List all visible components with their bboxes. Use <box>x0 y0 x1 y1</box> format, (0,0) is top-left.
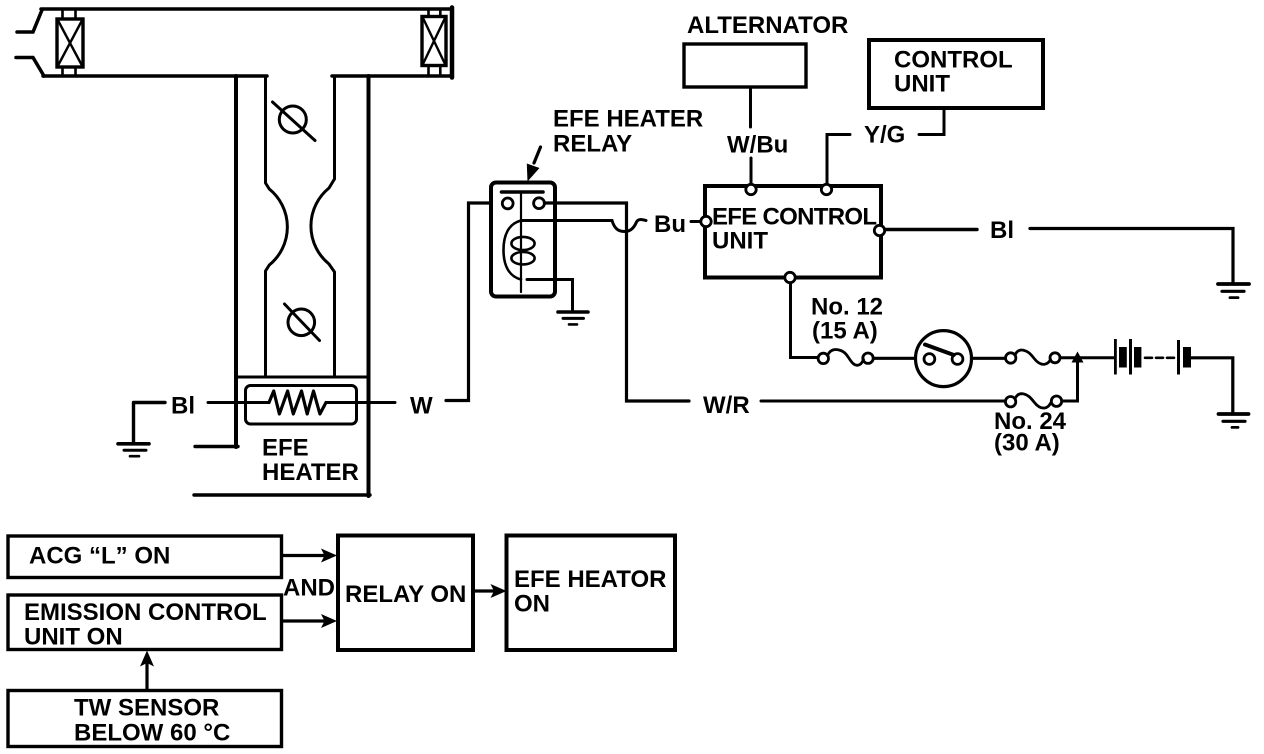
EFE heater box <box>246 386 357 425</box>
svg-text:RELAY ON: RELAY ON <box>345 581 466 608</box>
throttle valve upper <box>273 102 316 141</box>
svg-text:UNIT ON: UNIT ON <box>24 624 123 651</box>
check valve left <box>57 9 83 76</box>
terminal right (Bl) <box>874 225 884 235</box>
arrow TW SENSOR up to EMISSION box <box>145 662 148 690</box>
svg-text:TW SENSOR: TW SENSOR <box>74 695 219 722</box>
svg-text:EMISSION CONTROL: EMISSION CONTROL <box>24 599 267 626</box>
wire relay contact to W/R corner <box>545 203 690 401</box>
flowchart box ACG L ON <box>8 536 282 578</box>
control unit box <box>869 40 1043 108</box>
wire W up to relay <box>446 203 502 401</box>
flowchart box EMISSION CONTROL UNIT ON <box>8 595 282 650</box>
svg-text:(15 A): (15 A) <box>812 318 878 345</box>
ground left <box>118 444 149 456</box>
check valve right <box>422 9 446 76</box>
svg-text:W: W <box>410 393 433 420</box>
resistor EFE heater element <box>269 391 326 414</box>
flowchart box RELAY ON <box>338 536 473 651</box>
svg-text:ON: ON <box>514 591 550 618</box>
ignition switch <box>916 331 972 387</box>
svg-text:(30 A): (30 A) <box>994 430 1060 457</box>
wire stub left of Bu terminal <box>694 220 699 223</box>
svg-text:CONTROL: CONTROL <box>894 47 1013 74</box>
svg-text:AND: AND <box>283 575 335 602</box>
air duct <box>16 8 452 78</box>
wire W/R to fuse No.24 <box>761 400 1005 403</box>
svg-text:EFE HEATOR: EFE HEATOR <box>514 566 666 593</box>
flowchart box EFE HEATOR ON <box>507 536 676 651</box>
svg-text:UNIT: UNIT <box>894 71 950 98</box>
arrow ACG to RELAY ON <box>282 554 324 557</box>
svg-text:No. 12: No. 12 <box>811 294 883 321</box>
terminal bottom (No.12) <box>785 272 795 282</box>
EFE heater compartment top line <box>237 376 367 379</box>
terminal top left (W/Bu) <box>746 184 756 194</box>
wire relay coil to ground <box>527 280 573 312</box>
terminal left (Bu) <box>701 216 711 226</box>
svg-text:W/Bu: W/Bu <box>727 132 788 159</box>
svg-text:UNIT: UNIT <box>712 228 768 255</box>
wire control unit to fuse No.12 <box>791 283 818 358</box>
junction arrow <box>1072 352 1084 363</box>
alternator box <box>684 44 806 87</box>
svg-text:RELAY: RELAY <box>553 131 632 158</box>
wire Bu with hop <box>521 220 646 232</box>
venturi inner wall left <box>266 76 288 377</box>
svg-text:EFE: EFE <box>262 435 309 462</box>
fuse No.24 <box>1005 394 1061 408</box>
svg-text:EFE HEATER: EFE HEATER <box>553 106 703 133</box>
ground right upper <box>1218 284 1249 298</box>
wire battery to right ground <box>1191 358 1233 412</box>
flowchart box TW SENSOR BELOW 60 C <box>8 691 282 747</box>
ground right lower <box>1219 414 1249 427</box>
wire Y/G <box>919 108 944 135</box>
wire junction down to fuse No.24 <box>1062 358 1078 401</box>
wire fuse to switch <box>874 357 916 360</box>
wire W/Bu <box>749 87 752 127</box>
wire switch to fusible link <box>972 357 1006 360</box>
EFE control unit box <box>705 186 881 278</box>
svg-text:EFE CONTROL: EFE CONTROL <box>712 204 876 231</box>
wire Bl right <box>885 228 977 231</box>
svg-text:ACG “L” ON: ACG “L” ON <box>29 543 170 570</box>
svg-text:HEATER: HEATER <box>262 459 359 486</box>
arrow RELAY ON to EFE HEATOR <box>473 589 494 592</box>
svg-text:Bl: Bl <box>990 217 1014 244</box>
arrow EMISSION to RELAY ON <box>282 619 324 622</box>
wire fusible link to battery <box>1060 356 1114 359</box>
wire stub Bu to terminal <box>691 220 700 223</box>
wire Bl to heater <box>208 401 269 404</box>
wire heater to W <box>326 401 395 404</box>
carburetor body outer walls <box>194 76 370 496</box>
terminal top right (Y/G) <box>821 184 831 194</box>
wire Bl to right ground <box>1030 229 1233 283</box>
svg-text:Bl: Bl <box>171 393 195 420</box>
battery <box>1114 339 1191 375</box>
svg-text:ALTERNATOR: ALTERNATOR <box>687 12 848 39</box>
svg-text:W/R: W/R <box>703 392 750 419</box>
fuse fusible link <box>1006 350 1061 364</box>
svg-text:BELOW 60 °C: BELOW 60 °C <box>74 720 230 747</box>
relay EFE heater relay <box>491 183 555 297</box>
fuse No.12 <box>818 349 873 365</box>
venturi inner wall right <box>311 76 335 377</box>
ground relay <box>558 312 588 324</box>
svg-text:Y/G: Y/G <box>864 122 905 149</box>
svg-text:Bu: Bu <box>654 211 686 238</box>
wire to left ground <box>134 403 166 444</box>
throttle valve lower <box>285 304 320 341</box>
arrow relay pointer <box>534 147 541 163</box>
